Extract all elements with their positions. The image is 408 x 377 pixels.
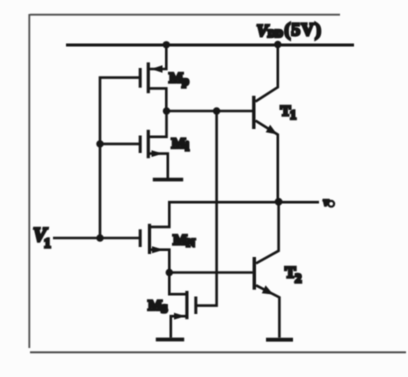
node A: MP source / Mi drain junction [163, 107, 170, 114]
wire vertical tap down to MS gate [197, 111, 217, 306]
transistor MS (NMOS, mirrored): channel bar, gate bar, source lead down, source arrow [171, 291, 196, 338]
node junction rail / T1 collector [274, 41, 281, 48]
transistor MN (NMOS): gate bar, channel bar, drain lead up joining vo wire, source lead down, source arrow [140, 202, 319, 272]
wire VDD supply rail [66, 44, 354, 47]
svg-text:(5V): (5V) [285, 19, 322, 39]
svg-text:1: 1 [44, 236, 51, 251]
node junction rail / MP drain [163, 41, 170, 48]
ground Mi source [153, 178, 183, 182]
wire MP gate to left gate bus (vertical) [100, 78, 139, 238]
transistor Mi (NMOS): gate bar, channel bar, drain lead up to node A, source lead, source arrow [140, 111, 168, 178]
wire V1 input to MN gate [53, 237, 139, 240]
ground T2 emitter [266, 338, 293, 342]
node Mi gate tap on gate bus [96, 140, 103, 147]
transistor T2 (NPN BJT): base bar, collector up to vo, emitter down, emitter arrow [254, 202, 279, 338]
wire node B down to MS drain [169, 273, 186, 295]
svg-text:N: N [187, 236, 196, 250]
wire node A to T1 base [167, 110, 253, 113]
node B: MN source / T2 base / MS drain junction [166, 269, 173, 276]
svg-text:2: 2 [295, 271, 302, 286]
frame left border [28, 14, 30, 348]
frame top border [30, 14, 340, 16]
svg-text:i: i [186, 140, 190, 154]
transistor T1 (NPN BJT): base bar, collector up to rail, emitter down to vo, emitter arrow [254, 45, 278, 202]
node junction on wire to T1 base (tap to MS gate) [213, 107, 220, 114]
svg-text:S: S [161, 302, 168, 316]
svg-text:1: 1 [290, 108, 296, 122]
wire node B to T2 base [169, 271, 253, 274]
svg-text:M: M [173, 233, 187, 249]
wire Mi gate [100, 143, 139, 146]
frame bottom border [30, 351, 406, 353]
svg-text:M: M [172, 136, 186, 152]
svg-text:DD: DD [268, 29, 284, 40]
node vo junction (T1 emitter / T2 collector / output) [275, 198, 283, 206]
node junction V1 wire / gate bus [96, 234, 103, 241]
svg-text:T: T [281, 104, 291, 120]
transistor MP (PMOS): gate bar, channel bar, drain lead to rail, source arrow, source lead [140, 45, 166, 111]
ground MS source [156, 338, 184, 342]
svg-text:p: p [182, 74, 189, 88]
